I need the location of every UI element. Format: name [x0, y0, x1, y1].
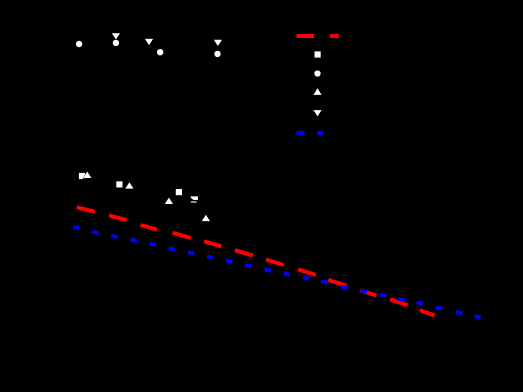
legend: circle marker — [314, 70, 320, 76]
legend: triangle-down marker — [313, 110, 321, 116]
partially-occluded square marker (white bar + faint bar) — [191, 196, 198, 203]
red dashed fit line — [77, 207, 435, 315]
blue dashed fit line — [73, 227, 481, 318]
legend: blue dashed line sample — [296, 131, 323, 135]
legend: triangle-up marker — [313, 88, 321, 95]
top scatter: circles (white) — [76, 40, 221, 57]
legend: square marker — [315, 51, 321, 57]
top scatter: triangle-downs (white) — [112, 33, 222, 46]
legend: red dashed line sample — [296, 34, 338, 38]
mid scatter: triangle-ups (white, thin black edge for overlap notches) — [82, 171, 210, 222]
mid scatter: squares (white) — [79, 173, 182, 195]
